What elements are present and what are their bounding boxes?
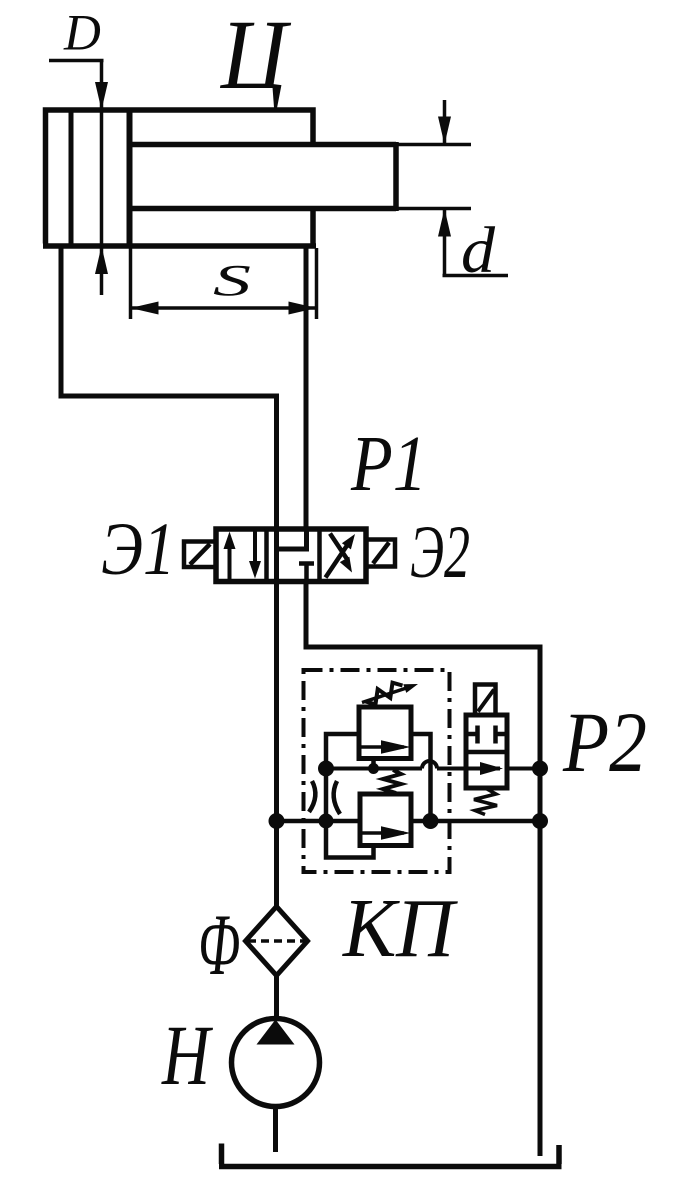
wire: pump to tank xyxy=(273,1106,278,1152)
relief valve lower arrowhead xyxy=(381,826,411,840)
tank xyxy=(219,1144,562,1167)
filter Ф mesh dashed line xyxy=(248,939,305,943)
wire: bottom rail line2 from left pipe to right rail xyxy=(277,819,541,824)
pump Н circle xyxy=(232,1019,320,1107)
junction dot line2 right pipe xyxy=(532,813,548,829)
valve P2 blocked ports xyxy=(466,726,507,744)
dimension S arrowheads xyxy=(131,302,159,315)
dimension d extension lines xyxy=(398,145,471,209)
piston rod xyxy=(132,142,396,211)
valve P1 right position crossed arrows xyxy=(326,534,351,578)
solenoid Э2 slash xyxy=(373,543,389,564)
filter Ф diamond xyxy=(246,907,308,976)
dimension D line through cylinder xyxy=(100,61,104,296)
block КП dash-dot boundary xyxy=(304,670,450,872)
svg-text:Р1: Р1 xyxy=(350,421,427,508)
cylinder Ц body xyxy=(43,110,316,246)
junction dot line1 left xyxy=(318,761,334,777)
valve P2 flow arrowhead xyxy=(480,762,503,775)
valve P2 solenoid box xyxy=(475,685,496,716)
svg-text:Р2: Р2 xyxy=(562,694,647,790)
dimension D leader line xyxy=(49,59,104,63)
wire: filter to pump xyxy=(274,976,279,1021)
relief valve upper flow arrow line xyxy=(359,745,404,749)
svg-text:Э1: Э1 xyxy=(101,508,175,591)
valve P1 section dividers xyxy=(267,529,320,582)
junction dot line1 stub xyxy=(368,763,379,774)
dimension S line xyxy=(131,306,317,310)
solenoid Э1 slash xyxy=(190,544,210,565)
solenoid Э2 box xyxy=(366,540,395,567)
valve P1 left position up arrow shaft xyxy=(228,540,232,579)
valve P2 solenoid slash xyxy=(478,690,494,712)
pump Н triangle xyxy=(257,1020,295,1045)
valve P1 cross arrowhead upper xyxy=(342,534,355,549)
relief valve upper adjusting spring xyxy=(366,683,403,705)
svg-text:Ф: Ф xyxy=(198,897,240,994)
relief valve upper body xyxy=(359,707,411,759)
valve P1 left position down arrow shaft xyxy=(253,532,257,563)
svg-text:Э2: Э2 xyxy=(410,511,470,594)
relief valve lower flow arrow line xyxy=(360,831,404,835)
valve P2 flow line xyxy=(466,767,500,771)
relief valve upper adjusting arrow xyxy=(362,688,408,703)
relief valve upper arrowhead xyxy=(381,740,411,754)
dimension D arrowheads xyxy=(95,82,108,110)
cylinder rear cap line xyxy=(69,110,74,246)
junction dot line2 left pipe xyxy=(269,813,285,829)
valve P1 centre position bypass U xyxy=(277,529,307,549)
svg-text:d: d xyxy=(461,214,496,287)
svg-text:D: D xyxy=(63,6,101,62)
valve P2 section divider xyxy=(466,750,507,755)
valve P2 body xyxy=(466,715,507,788)
valve P1 up arrowhead xyxy=(224,532,236,550)
piston xyxy=(127,110,133,246)
svg-text:КП: КП xyxy=(342,882,458,975)
svg-text:Ц: Ц xyxy=(219,0,291,110)
junction dot line2 check branch xyxy=(423,813,439,829)
relief valve upper port lines xyxy=(326,734,431,821)
valve P2 return spring xyxy=(474,789,497,815)
valve P1 cross arrowhead lower xyxy=(340,557,352,573)
dimension d arrowheads xyxy=(438,117,451,145)
wire: valve P1 right output down, right, and down the right rail xyxy=(304,582,541,1157)
throttle arcs xyxy=(309,781,340,814)
throttle vertical line xyxy=(324,769,329,822)
solenoid Э1 box xyxy=(184,542,216,568)
wire: hop bump over vertical line xyxy=(422,761,437,768)
svg-text:Н: Н xyxy=(161,1007,213,1103)
relief valve upper adjusting arrowhead xyxy=(403,684,418,693)
valve P1 body xyxy=(216,529,366,582)
dimension d line with corner leader xyxy=(443,100,509,276)
valve P1 down arrowhead xyxy=(249,561,261,579)
junction dot line2 throttle xyxy=(319,814,334,829)
relief valve lower bottom loop xyxy=(326,821,374,858)
relief valve lower body xyxy=(360,794,411,846)
valve P1 centre position blocked port T xyxy=(299,564,314,582)
wire: cylinder bottom port down to valve P1 xyxy=(304,244,309,530)
junction dot line1 right xyxy=(532,761,548,777)
wire: cylinder left port down and right to valve column A xyxy=(61,244,279,907)
svg-text:S: S xyxy=(213,256,251,305)
spring between relief valves xyxy=(383,770,401,793)
dimension S extension lines xyxy=(131,248,317,319)
wire: pilot line1 from throttle junction to P2 with hop over vertical xyxy=(326,767,540,771)
